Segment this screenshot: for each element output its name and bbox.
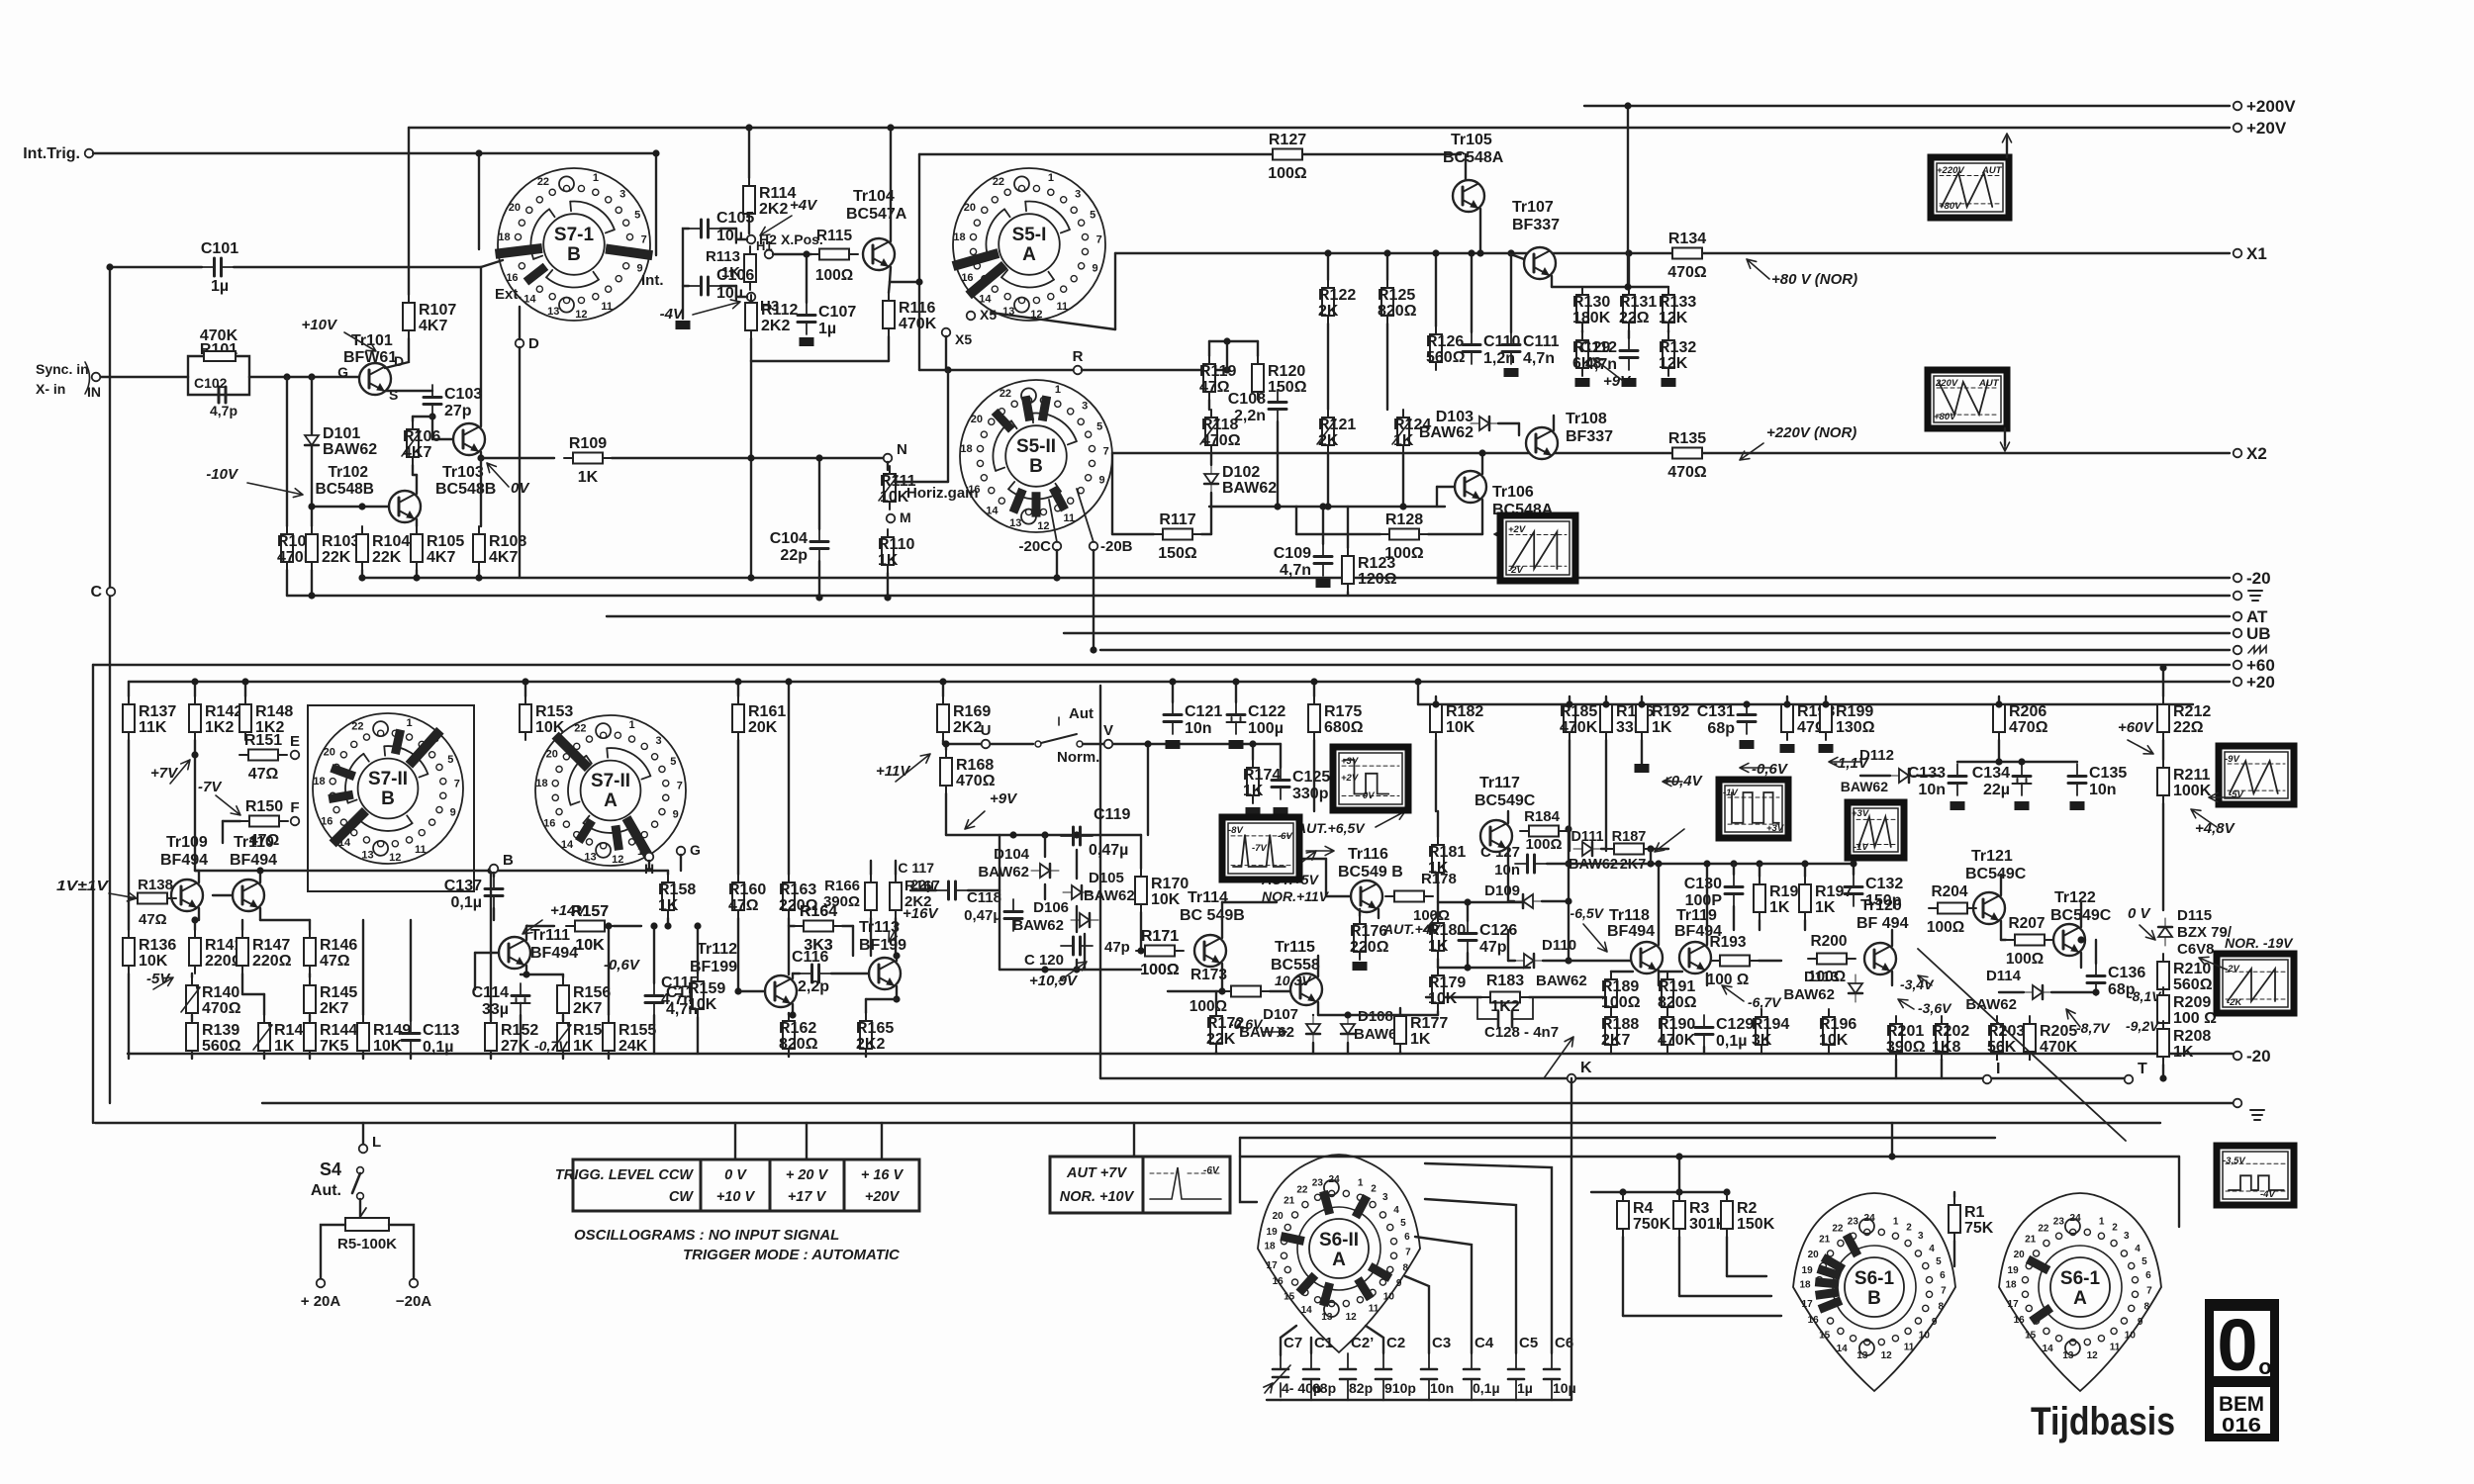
capacitor C131: [1697, 702, 1756, 737]
svg-text:23: 23: [1848, 1216, 1859, 1227]
wire L: [362, 1123, 364, 1145]
svg-text:Sync. in: Sync. in: [36, 361, 89, 377]
resistor R208: [2157, 1021, 2211, 1065]
wire to -20A: [389, 1225, 414, 1278]
wire: [870, 861, 872, 875]
svg-text:D103: D103: [1436, 409, 1474, 425]
arrow: [1740, 763, 1771, 772]
svg-text:R134: R134: [1668, 231, 1706, 247]
svg-text:390Ω: 390Ω: [1886, 1039, 1926, 1056]
svg-text:R136: R136: [139, 937, 176, 954]
svg-text:47p: 47p: [1104, 939, 1130, 956]
svg-text:A: A: [2073, 1288, 2087, 1309]
wire: [1628, 330, 1630, 338]
svg-text:BAW62: BAW62: [1569, 857, 1618, 873]
svg-text:Tr115: Tr115: [1275, 939, 1315, 956]
wire R101 branch: [188, 356, 249, 377]
svg-text:12: 12: [575, 309, 587, 321]
svg-text:910p: 910p: [1384, 1380, 1416, 1396]
wire -20C down: [1056, 550, 1058, 578]
stub: [1998, 740, 2000, 762]
transistor Tr119 BF494: [1679, 942, 1711, 974]
svg-text:560Ω: 560Ω: [202, 1038, 241, 1055]
junction: [1310, 678, 1317, 685]
resistor R151: [239, 732, 287, 783]
svg-text:C108: C108: [1228, 391, 1266, 408]
node H2: [747, 235, 756, 244]
svg-text:UB: UB: [2246, 624, 2271, 643]
svg-text:Tr112: Tr112: [697, 941, 737, 958]
svg-text:R146: R146: [320, 937, 357, 954]
resistor R102: [277, 526, 316, 570]
capacitor C136: [2087, 964, 2145, 998]
arrow: [247, 483, 303, 498]
stub: [1703, 1047, 1705, 1054]
wire: [1553, 416, 1555, 430]
wire: [1471, 1399, 1473, 1401]
terminal X1: [2234, 249, 2242, 258]
svg-text:+220V (NOR): +220V (NOR): [1766, 424, 1856, 441]
resistor R126: [1426, 326, 1466, 370]
svg-text:18: 18: [960, 443, 972, 455]
svg-text:R137: R137: [139, 703, 176, 720]
svg-text:220V: 220V: [1935, 378, 1958, 389]
svg-text:R127: R127: [1269, 132, 1306, 148]
resistor R159: [688, 974, 725, 1017]
resistor R110: [878, 529, 914, 573]
resistor R179: [1428, 968, 1466, 1011]
wire: [792, 974, 794, 978]
junction: [884, 594, 891, 601]
wire: [1918, 775, 1940, 777]
svg-text:R2: R2: [1737, 1200, 1758, 1217]
stub: [1610, 1053, 1612, 1054]
junction: [2159, 664, 2166, 671]
resistor R182: [1430, 696, 1483, 740]
svg-text:Tr105: Tr105: [1451, 132, 1492, 148]
svg-text:11: 11: [1369, 1304, 1380, 1315]
arrow: [2002, 134, 2011, 153]
svg-text:C128 - 4n7: C128 - 4n7: [1484, 1024, 1559, 1041]
wire C4 link: [1415, 1237, 1472, 1353]
resistor R183: [1481, 992, 1529, 1003]
svg-text:R110: R110: [878, 536, 914, 553]
svg-text:10K: 10K: [880, 489, 909, 506]
wire U-V: [991, 743, 1033, 745]
wire to Ext wiper: [481, 260, 503, 267]
svg-text:10,3V: 10,3V: [1275, 973, 1312, 988]
svg-text:4K7: 4K7: [419, 318, 447, 334]
resistor R3: [1673, 1193, 1728, 1237]
wire C104 bottom: [818, 561, 820, 598]
capacitor C129: [1695, 1015, 1754, 1050]
stub: [1760, 1053, 1762, 1054]
svg-text:10K: 10K: [1446, 719, 1475, 736]
svg-text:470K: 470K: [2040, 1039, 2078, 1056]
svg-text:14: 14: [1837, 1344, 1849, 1354]
stub: [1941, 1060, 1943, 1078]
stub: [1895, 1060, 1897, 1078]
svg-text:Norm.: Norm.: [1057, 749, 1099, 766]
svg-text:1: 1: [407, 717, 413, 729]
resistor R133: [1659, 287, 1696, 330]
svg-text:R157: R157: [571, 903, 609, 920]
svg-text:B: B: [1867, 1288, 1881, 1309]
resistor R131: [1619, 287, 1657, 330]
svg-text:C1: C1: [1314, 1335, 1333, 1351]
node F: [291, 817, 300, 826]
table AUT NOR: [1050, 1157, 1230, 1213]
svg-text:R120: R120: [1268, 363, 1305, 380]
svg-text:R107: R107: [419, 302, 456, 319]
svg-text:18: 18: [1799, 1280, 1811, 1291]
wire: [888, 336, 890, 361]
wire: [866, 998, 897, 1000]
svg-text:13: 13: [2062, 1350, 2074, 1361]
svg-text:1K: 1K: [878, 552, 899, 569]
junction: [308, 592, 315, 599]
svg-text:22K: 22K: [372, 549, 402, 566]
node T: [2125, 1075, 2134, 1084]
resistor R145: [304, 977, 357, 1021]
svg-text:Aut.: Aut.: [311, 1182, 341, 1199]
wire C2 link: [1366, 1326, 1383, 1353]
svg-text:20: 20: [546, 748, 558, 760]
svg-text:1: 1: [1893, 1216, 1899, 1227]
arrow: [1425, 912, 1440, 930]
capacitor: [1061, 827, 1093, 845]
resistor R206: [1993, 696, 2048, 740]
svg-text:C131: C131: [1697, 703, 1735, 720]
svg-text:11K: 11K: [139, 719, 167, 736]
resistor R194: [1752, 1009, 1789, 1053]
resistor R181: [1428, 837, 1466, 881]
junction: [1756, 860, 1762, 867]
oscillogram NOR sawtooth: [2217, 954, 2294, 1013]
svg-text:R140: R140: [202, 984, 239, 1001]
wire R183 left: [1426, 996, 1481, 998]
svg-text:016: 016: [2222, 1415, 2261, 1437]
wire C107 top: [806, 254, 808, 303]
transistor Tr104 BC547A: [863, 238, 895, 270]
svg-text:R147: R147: [252, 937, 290, 954]
resistor R105: [411, 526, 464, 570]
svg-text:A: A: [1022, 244, 1036, 265]
svg-text:20: 20: [2014, 1250, 2026, 1260]
svg-text:47p: 47p: [1479, 939, 1507, 956]
resistor R137: [123, 696, 176, 740]
svg-text:R122: R122: [1318, 287, 1356, 304]
switch Aut contact: [1035, 741, 1041, 747]
svg-text:5: 5: [1936, 1256, 1942, 1267]
svg-text:R209: R209: [2173, 994, 2211, 1011]
diode D112: [1890, 769, 1918, 783]
svg-text:Tr107: Tr107: [1512, 199, 1554, 216]
wire: [2080, 953, 2082, 968]
svg-text:R4: R4: [1633, 1200, 1654, 1217]
svg-text:R168: R168: [956, 757, 994, 774]
svg-text:220Ω: 220Ω: [1350, 939, 1389, 956]
svg-text:M: M: [900, 510, 911, 525]
svg-text:S7-1: S7-1: [554, 225, 595, 245]
svg-text:150Ω: 150Ω: [1158, 545, 1197, 562]
wire R186 down: [1605, 740, 1607, 851]
wire: [1084, 934, 1086, 970]
svg-text:2K: 2K: [1318, 432, 1339, 449]
svg-text:BF494: BF494: [1607, 923, 1655, 940]
terminal sawtooth out: [2234, 646, 2242, 655]
resistor R132: [1659, 332, 1696, 376]
transistor Tr103 BC548B: [453, 423, 485, 455]
svg-text:BF494: BF494: [530, 945, 578, 962]
svg-text:I: I: [1996, 1061, 2000, 1077]
svg-text:C106: C106: [716, 267, 754, 284]
wire: [889, 282, 890, 293]
arrow: [2128, 740, 2153, 754]
ground: [1504, 368, 1519, 377]
stub C130 top: [1733, 864, 1735, 875]
node N: [884, 454, 893, 463]
resistor R139: [186, 1015, 241, 1059]
svg-text:R161: R161: [748, 703, 786, 720]
junction: [1464, 964, 1471, 971]
wire: [101, 376, 188, 378]
svg-text:R194: R194: [1752, 1016, 1789, 1033]
capacitor C134: [1972, 764, 2032, 798]
wire: [1436, 487, 1438, 507]
svg-text:BAW62: BAW62: [1965, 996, 2017, 1013]
stub bottom: [490, 1053, 492, 1059]
wire: [191, 974, 193, 977]
brace: [85, 362, 90, 394]
transistor Tr109 BF494: [171, 880, 203, 911]
svg-text:R169: R169: [953, 703, 991, 720]
wire left vertical lower: [109, 597, 111, 1103]
resistor R204: [1929, 903, 1976, 914]
svg-text:R211: R211: [2173, 767, 2210, 784]
svg-text:AUT.+4V: AUT.+4V: [1382, 921, 1442, 937]
svg-text:470K: 470K: [899, 316, 937, 332]
capacitor C2: [1382, 1353, 1384, 1400]
svg-text:D113: D113: [1804, 969, 1839, 985]
wire x197 down: [194, 740, 196, 871]
svg-text:D: D: [528, 335, 539, 352]
wire: [614, 925, 641, 927]
resistor R154: [552, 1015, 611, 1059]
svg-text:D108: D108: [1358, 1008, 1393, 1025]
resistor R191: [1658, 972, 1697, 1015]
svg-text:C132: C132: [1865, 876, 1903, 892]
svg-text:-3,5V: -3,5V: [2223, 1156, 2245, 1166]
svg-text:23: 23: [1312, 1177, 1324, 1188]
resistor R117: [1154, 511, 1201, 562]
svg-text:470K: 470K: [1658, 1032, 1696, 1049]
transistor Tr105 BC548A: [1453, 180, 1484, 212]
wire diagonal pointer: [1918, 949, 2126, 1141]
arrow: [1829, 757, 1860, 766]
svg-text:1: 1: [629, 719, 635, 731]
resistor R173: [1222, 986, 1270, 997]
wire: [191, 1015, 193, 1021]
ground: [1274, 807, 1288, 816]
wire: [1658, 864, 1660, 945]
wire: [1399, 1008, 1401, 1015]
svg-text:BC548B: BC548B: [316, 481, 374, 498]
svg-text:14: 14: [1301, 1305, 1313, 1316]
svg-text:470Ω: 470Ω: [1201, 432, 1241, 449]
wire: [1498, 422, 1519, 424]
svg-text:-8V: -8V: [1228, 825, 1243, 836]
wire C5 link: [1425, 1199, 1516, 1353]
svg-text:A: A: [1332, 1250, 1346, 1270]
wire table feed 3: [881, 1123, 883, 1159]
svg-text:10K: 10K: [1428, 990, 1458, 1007]
svg-text:18: 18: [2005, 1280, 2017, 1291]
svg-text:6: 6: [1404, 1232, 1410, 1243]
oscillogram +220V AUT: [1931, 157, 2009, 218]
stub: [1941, 1059, 1943, 1061]
svg-text:-20C: -20C: [1018, 538, 1051, 555]
svg-text:C112: C112: [1580, 339, 1617, 356]
wire: [697, 1017, 699, 1054]
potentiometer R5: [345, 1218, 389, 1231]
svg-text:R125: R125: [1378, 287, 1415, 304]
wire R4 down: [1622, 1237, 1624, 1316]
wire C109 top: [1322, 507, 1324, 544]
svg-text:R187: R187: [1612, 829, 1647, 845]
wire R161 to R160: [737, 740, 739, 875]
svg-text:R142: R142: [205, 703, 242, 720]
junction: [2159, 1074, 2166, 1081]
svg-text:-1V: -1V: [1854, 842, 1868, 853]
svg-text:BC 549B: BC 549B: [1180, 907, 1245, 924]
wire: [1327, 324, 1329, 410]
wire top rail y712: [1418, 703, 2193, 705]
wire C101 left: [110, 266, 202, 268]
wire down to S5 area: [918, 154, 920, 370]
wire: [831, 973, 869, 974]
wire +20V corner to R107: [408, 128, 410, 295]
resistor R178: [1385, 891, 1433, 902]
resistor R175: [1308, 696, 1364, 740]
svg-text:BC548A: BC548A: [1443, 149, 1504, 166]
svg-text:100Ω: 100Ω: [1525, 836, 1562, 853]
svg-text:BAW62: BAW62: [1536, 973, 1587, 989]
svg-text:9: 9: [1932, 1317, 1938, 1328]
svg-text:Tr110: Tr110: [234, 834, 274, 851]
svg-text:+2V: +2V: [1341, 773, 1359, 784]
resistor R177: [1394, 1008, 1448, 1052]
wire: [1860, 775, 1890, 777]
stub bottom: [309, 1053, 311, 1059]
svg-text:23: 23: [2053, 1216, 2065, 1227]
wire: [943, 743, 981, 745]
svg-text:1K: 1K: [1393, 432, 1414, 449]
svg-text:47Ω: 47Ω: [320, 953, 350, 970]
wire: [1435, 253, 1437, 326]
junction: [1995, 758, 2002, 765]
arrow: [1286, 851, 1316, 875]
svg-text:-0,6V: -0,6V: [1752, 761, 1789, 778]
svg-text:+9V: +9V: [1603, 373, 1632, 390]
wire R111 to S5-II: [895, 481, 948, 483]
svg-text:7: 7: [1096, 234, 1102, 246]
svg-text:18: 18: [1264, 1242, 1276, 1252]
resistor R136: [123, 930, 176, 974]
svg-text:9: 9: [2138, 1317, 2143, 1328]
svg-text:13: 13: [1009, 517, 1021, 529]
junction: [522, 678, 528, 685]
svg-text:0: 0: [2217, 1304, 2257, 1386]
resistor R143: [253, 1015, 312, 1059]
resistor R184: [1520, 826, 1568, 837]
capacitor C130: [1684, 875, 1743, 909]
wire C108 down: [1277, 421, 1279, 507]
wire 0V line: [481, 457, 554, 459]
svg-text:Ext.: Ext.: [495, 286, 523, 303]
diode D111: [1573, 842, 1601, 856]
wire D down: [519, 347, 521, 578]
svg-text:1K: 1K: [658, 897, 679, 914]
wire: [562, 1015, 564, 1021]
junction: [893, 995, 900, 1002]
svg-text:C6V8: C6V8: [2177, 941, 2215, 958]
resistor R128: [1380, 511, 1428, 562]
svg-text:R109: R109: [569, 435, 607, 452]
svg-text:Tr103: Tr103: [442, 464, 484, 481]
capacitor C5: [1515, 1353, 1517, 1400]
wire: [788, 1054, 790, 1057]
wire: [198, 908, 200, 920]
wire R152 top: [490, 871, 492, 1021]
ground: [1229, 740, 1244, 749]
svg-text:+20: +20: [2246, 673, 2275, 692]
ground: [1246, 807, 1261, 816]
logo BEM 016: [2205, 1299, 2279, 1441]
svg-text:1: 1: [593, 172, 599, 184]
svg-text:10: 10: [2125, 1331, 2137, 1342]
svg-text:R115: R115: [816, 228, 853, 244]
svg-text:D109: D109: [1484, 882, 1520, 899]
svg-text:16: 16: [321, 815, 333, 827]
svg-text:17: 17: [2008, 1299, 2020, 1310]
arrow: [1059, 962, 1087, 981]
capacitor C3: [1428, 1353, 1430, 1400]
svg-text:100Ω: 100Ω: [815, 267, 853, 284]
diode: [2158, 918, 2172, 946]
wire C3 link: [1405, 1276, 1429, 1353]
wire R187 right: [1653, 848, 1668, 850]
svg-text:+10,9V: +10,9V: [1029, 973, 1079, 989]
stub: [1235, 682, 1237, 702]
stub: [1825, 696, 1827, 704]
ground: [800, 337, 814, 346]
svg-text:20: 20: [1273, 1211, 1285, 1222]
junction: [1703, 860, 1710, 867]
svg-text:2K: 2K: [1318, 303, 1339, 320]
svg-text:+3V: +3V: [1341, 756, 1359, 767]
svg-text:47Ω: 47Ω: [248, 766, 279, 783]
svg-text:R1: R1: [1964, 1204, 1985, 1221]
rotary switch S6-1 A: [1999, 1193, 2161, 1391]
stub bottom: [362, 1053, 364, 1059]
wire S6-II left: [1240, 1138, 1257, 1202]
arrow: [170, 760, 190, 784]
oscillogram -9V: [2219, 746, 2294, 804]
stub bottom: [263, 1053, 265, 1059]
svg-text:-20: -20: [2246, 569, 2271, 588]
svg-text:0,1µ: 0,1µ: [451, 894, 482, 911]
